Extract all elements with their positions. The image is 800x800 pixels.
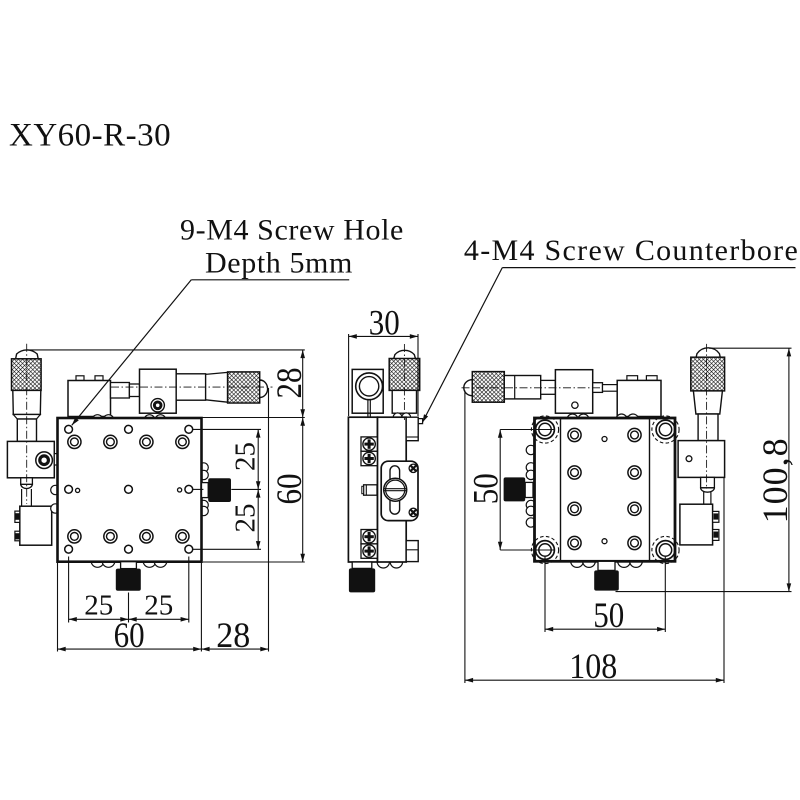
dimension 50 (left, vertical) <box>500 429 553 431</box>
rear X barrel <box>541 380 556 394</box>
X spindle step <box>129 384 139 397</box>
side bottom bearing bump <box>377 556 389 568</box>
right edge bearing bump <box>199 506 208 515</box>
X spindle <box>111 383 130 399</box>
M4 screw hole <box>65 485 73 493</box>
svg-text:4-M4 Screw Counterbore: 4-M4 Screw Counterbore <box>464 234 799 267</box>
rear bottom edge bearing bump <box>630 555 643 568</box>
side top bearing bump 2 <box>402 413 411 422</box>
rear small hole bottom <box>602 539 607 544</box>
rear inner plate right edge <box>649 418 651 561</box>
dowel hole right <box>178 488 182 492</box>
rear X ratchet cap <box>464 380 473 396</box>
Y mount lock screw outer <box>36 452 53 469</box>
side knurled thimble <box>389 359 420 391</box>
Y spindle <box>21 478 33 485</box>
leader line 9-M4 <box>72 280 192 425</box>
ext line micrometer end <box>268 388 270 652</box>
svg-text:25: 25 <box>230 504 262 533</box>
rear top edge bearing bump <box>628 414 639 425</box>
Y lower bracket <box>20 506 52 545</box>
rear left edge bearing bump <box>526 463 535 472</box>
rear bottom edge bearing bump <box>618 555 631 568</box>
svg-text:28: 28 <box>269 368 309 399</box>
ext line 108 left <box>464 391 466 684</box>
lock plate screw lower <box>409 508 417 516</box>
bottom edge bearing bump <box>143 555 156 568</box>
X body lock screw ring <box>154 402 161 409</box>
rear X spindle rod <box>603 385 618 392</box>
side bottom knob <box>349 568 375 592</box>
svg-text:28: 28 <box>216 615 250 655</box>
X micrometer body block <box>140 369 177 413</box>
lock plate <box>381 461 418 520</box>
leader underline 4-M4 <box>502 267 795 269</box>
M4 screw hole <box>65 425 73 433</box>
counterbore step corner <box>418 419 422 424</box>
rear left edge bearing bump <box>526 500 535 509</box>
rear mount hole <box>568 428 581 441</box>
4-M4 counterbore hole <box>539 423 551 435</box>
bottom edge bearing bump <box>102 555 115 568</box>
counterbored mount hole <box>104 435 117 448</box>
rear mount hole <box>628 466 641 479</box>
rear mount hole <box>628 502 641 515</box>
rear left knob neck <box>525 482 533 497</box>
svg-text:25: 25 <box>144 590 173 622</box>
X micrometer ratchet cap <box>260 380 268 398</box>
screw block 1 <box>361 437 377 451</box>
dimension 100,8 (right, vertical) <box>709 347 792 349</box>
top edge bearing bump <box>103 415 114 426</box>
screw block 3 <box>361 530 377 544</box>
rear top edge bearing bump <box>578 414 589 425</box>
top edge bearing bump <box>155 415 166 426</box>
ext line plate bottom <box>203 561 305 563</box>
side micrometer centerline <box>403 344 405 420</box>
counterbored mount hole <box>176 435 189 448</box>
X-axis micrometer centerline <box>111 386 273 388</box>
side micrometer mount block <box>352 369 383 413</box>
back plate notch line <box>406 436 418 438</box>
side mount bore outer <box>356 373 383 400</box>
bottom edge bearing bump <box>154 555 167 568</box>
X micrometer knurled thimble <box>228 372 260 403</box>
rear left knob <box>504 477 526 501</box>
dim line 50 bottom <box>545 628 665 630</box>
M4 screw hole <box>125 485 133 493</box>
Y micrometer sleeve <box>13 390 41 414</box>
svg-text:25: 25 <box>84 590 113 622</box>
side mount stem left <box>367 400 369 417</box>
rear small hole top <box>602 437 607 442</box>
rear Y lower bracket <box>680 504 713 545</box>
rear Y sleeve <box>693 391 722 414</box>
rear left edge bearing bump <box>526 518 535 527</box>
counterbored mount hole <box>176 530 189 543</box>
svg-text:Depth 5mm: Depth 5mm <box>205 247 353 280</box>
rear Y spindle <box>701 477 715 487</box>
rear X sleeve step <box>514 376 516 399</box>
top edge bearing bump <box>92 415 103 426</box>
svg-text:108: 108 <box>569 646 617 686</box>
left edge bearing bump <box>51 504 60 513</box>
X bracket tab left <box>76 376 84 381</box>
Y mount tab <box>54 454 57 465</box>
lock plate screw upper <box>409 464 417 472</box>
M4 screw hole <box>125 545 133 553</box>
rear bottom knob neck <box>598 561 615 570</box>
rear Y barrel <box>698 414 718 441</box>
rear Y mount block <box>678 441 725 478</box>
svg-text:50: 50 <box>466 473 506 504</box>
side micrometer barrel <box>392 390 416 413</box>
lock screw slot upper <box>384 488 406 490</box>
rear left edge bearing bump <box>526 470 535 479</box>
counterbored mount hole <box>140 530 153 543</box>
rear X micrometer centerline <box>462 387 604 389</box>
rear mount hole <box>628 428 641 441</box>
top edge bearing bump <box>144 415 155 426</box>
rear top edge bearing bump <box>567 414 578 425</box>
ext line 108 right <box>723 478 725 683</box>
right knob neck <box>202 483 209 498</box>
clamp piece <box>364 485 377 495</box>
side mount stem right <box>369 400 371 417</box>
svg-text:60: 60 <box>114 615 145 655</box>
leader arrowhead 9-M4 <box>70 417 79 426</box>
rear mount hole <box>568 502 581 515</box>
svg-text:9-M4 Screw Hole: 9-M4 Screw Hole <box>180 214 404 247</box>
lock plate slot <box>390 466 400 514</box>
X body lock screw outer <box>151 399 164 412</box>
rear X mount block <box>555 370 592 414</box>
bottom adjustment knob <box>116 569 141 591</box>
side body left slab <box>348 417 377 562</box>
rear Y micrometer centerline <box>706 344 708 489</box>
X sleeve taper <box>206 372 228 402</box>
rear mount hole <box>568 466 581 479</box>
bottom knob neck <box>121 562 137 569</box>
dim line 28 bottom <box>201 648 268 650</box>
dim line 108 <box>465 679 724 681</box>
phillips screw 1 <box>363 438 375 450</box>
side thimble dome cap <box>394 350 416 358</box>
front stage plate <box>58 418 202 562</box>
rear X drive bracket <box>617 380 661 416</box>
rear X mount hole <box>572 402 578 408</box>
screw block 4 <box>361 544 377 558</box>
svg-text:50: 50 <box>593 595 624 635</box>
side bottom knob neck <box>352 562 372 568</box>
dimension 60 (bottom, horizontal) <box>57 563 59 652</box>
rear Y knurled thimble <box>691 357 725 391</box>
Y spindle tip dome <box>21 484 33 488</box>
counterbored mount hole <box>140 435 153 448</box>
Y spindle rod left <box>21 489 23 506</box>
M4 screw hole <box>185 545 193 553</box>
back plate notch line 2 <box>406 549 418 551</box>
rear Y mount hole <box>686 456 692 462</box>
side bottom bearing bump 2 <box>390 556 402 568</box>
ext line plate top <box>202 417 305 419</box>
Y micrometer mount block <box>7 441 54 477</box>
dim line 50 left <box>499 430 501 551</box>
rear Y bracket tab upper <box>713 511 719 522</box>
side body back plate upper <box>406 417 418 441</box>
rear X sleeve <box>504 376 540 399</box>
rear Y spindle dome <box>701 488 715 492</box>
Y micrometer knurled thimble <box>12 359 42 391</box>
counterbored mount hole <box>68 435 81 448</box>
M4 screw hole <box>65 545 73 553</box>
svg-text:25: 25 <box>230 442 262 471</box>
M4 screw hole <box>185 485 193 493</box>
rear inner plate left edge <box>560 418 562 561</box>
rear X knurled thimble <box>472 372 504 403</box>
X drive bracket <box>68 381 111 417</box>
rear left edge bearing bump <box>526 445 535 454</box>
rear X bracket tab left <box>627 376 638 381</box>
phillips screw 4 <box>363 545 375 557</box>
right edge bearing bump <box>199 500 208 509</box>
lock screw slot lower <box>384 490 406 492</box>
left edge bearing bump <box>51 485 60 494</box>
dimension 30 (top of side view) <box>348 334 350 416</box>
dim line 60 right <box>302 418 304 563</box>
side top bearing bump <box>393 413 402 422</box>
side body back plate lower <box>406 541 418 562</box>
Y bracket tab upper <box>15 511 20 522</box>
4-M4 counterbore hole <box>539 544 551 556</box>
right edge bearing bump <box>199 463 208 472</box>
phillips screw 2 <box>363 452 375 464</box>
dimension 25/25 (right, vertical) <box>192 428 261 430</box>
4-M4 counterbore hole <box>659 544 671 556</box>
rear bottom edge bearing bump <box>571 555 584 568</box>
side body middle slab <box>378 417 407 562</box>
dim line 100,8 <box>788 348 790 591</box>
Y spindle rod right <box>30 489 32 506</box>
clamp lip <box>362 486 364 493</box>
Y sleeve taper <box>13 415 40 420</box>
dim line 60 bottom <box>58 648 202 650</box>
svg-text:60: 60 <box>269 474 309 505</box>
Y mount lock screw ring <box>40 456 49 465</box>
rear X bracket tab right <box>646 376 657 381</box>
rear mount hole <box>628 536 641 549</box>
screw block 2 <box>361 451 377 465</box>
counterbored mount hole <box>68 530 81 543</box>
rear Y dome cap <box>696 348 720 358</box>
leader line 4-M4 <box>422 268 502 423</box>
dowel hole left <box>76 488 80 492</box>
dimension 25/25 (bottom, horizontal) <box>68 557 70 623</box>
X micrometer sleeve <box>176 374 205 400</box>
svg-text:100,8: 100,8 <box>755 437 795 523</box>
Y bracket tab lower <box>15 531 20 541</box>
rear X spindle <box>593 383 603 393</box>
rear body plate <box>535 418 676 561</box>
rear mount hole <box>568 536 581 549</box>
rear top edge bearing bump <box>616 414 627 425</box>
bottom edge bearing bump <box>91 555 104 568</box>
leader underline 9-M4 <box>191 279 349 281</box>
dim line 25/25 bottom <box>69 618 189 620</box>
phillips screw 3 <box>363 531 375 543</box>
Y-axis micrometer centerline <box>26 344 28 504</box>
dim line 25/25 right <box>257 429 259 549</box>
rear Y rod left <box>703 492 705 505</box>
lock screw head outer <box>384 478 407 501</box>
right edge bearing bump <box>199 470 208 479</box>
ext line top of micrometers <box>27 349 305 351</box>
rear bottom knob <box>594 570 619 590</box>
svg-text:XY60-R-30: XY60-R-30 <box>9 118 171 154</box>
X bracket tab right <box>95 376 103 381</box>
dim line 28 top <box>302 350 304 418</box>
leader arrowhead 4-M4 <box>420 414 428 423</box>
svg-text:30: 30 <box>369 303 400 343</box>
lock screw head inner <box>386 480 405 499</box>
M4 screw hole <box>185 425 193 433</box>
Y micrometer dome cap <box>16 350 39 359</box>
rear Y rod right <box>710 492 712 505</box>
rear left edge bearing bump <box>526 506 535 515</box>
4-M4 counterbore hole <box>659 423 671 435</box>
counterbored mount hole <box>104 530 117 543</box>
side mount bore inner <box>359 377 378 396</box>
rear bottom edge bearing bump <box>583 555 596 568</box>
M4 screw hole <box>125 425 133 433</box>
clamp inner line <box>365 485 367 495</box>
Y micrometer stem <box>17 419 36 441</box>
dimension 50 (bottom, horizontal) <box>544 557 546 632</box>
rear Y bracket tab lower <box>713 530 719 541</box>
right adjustment knob <box>208 478 231 502</box>
dim line 30 <box>349 335 418 337</box>
